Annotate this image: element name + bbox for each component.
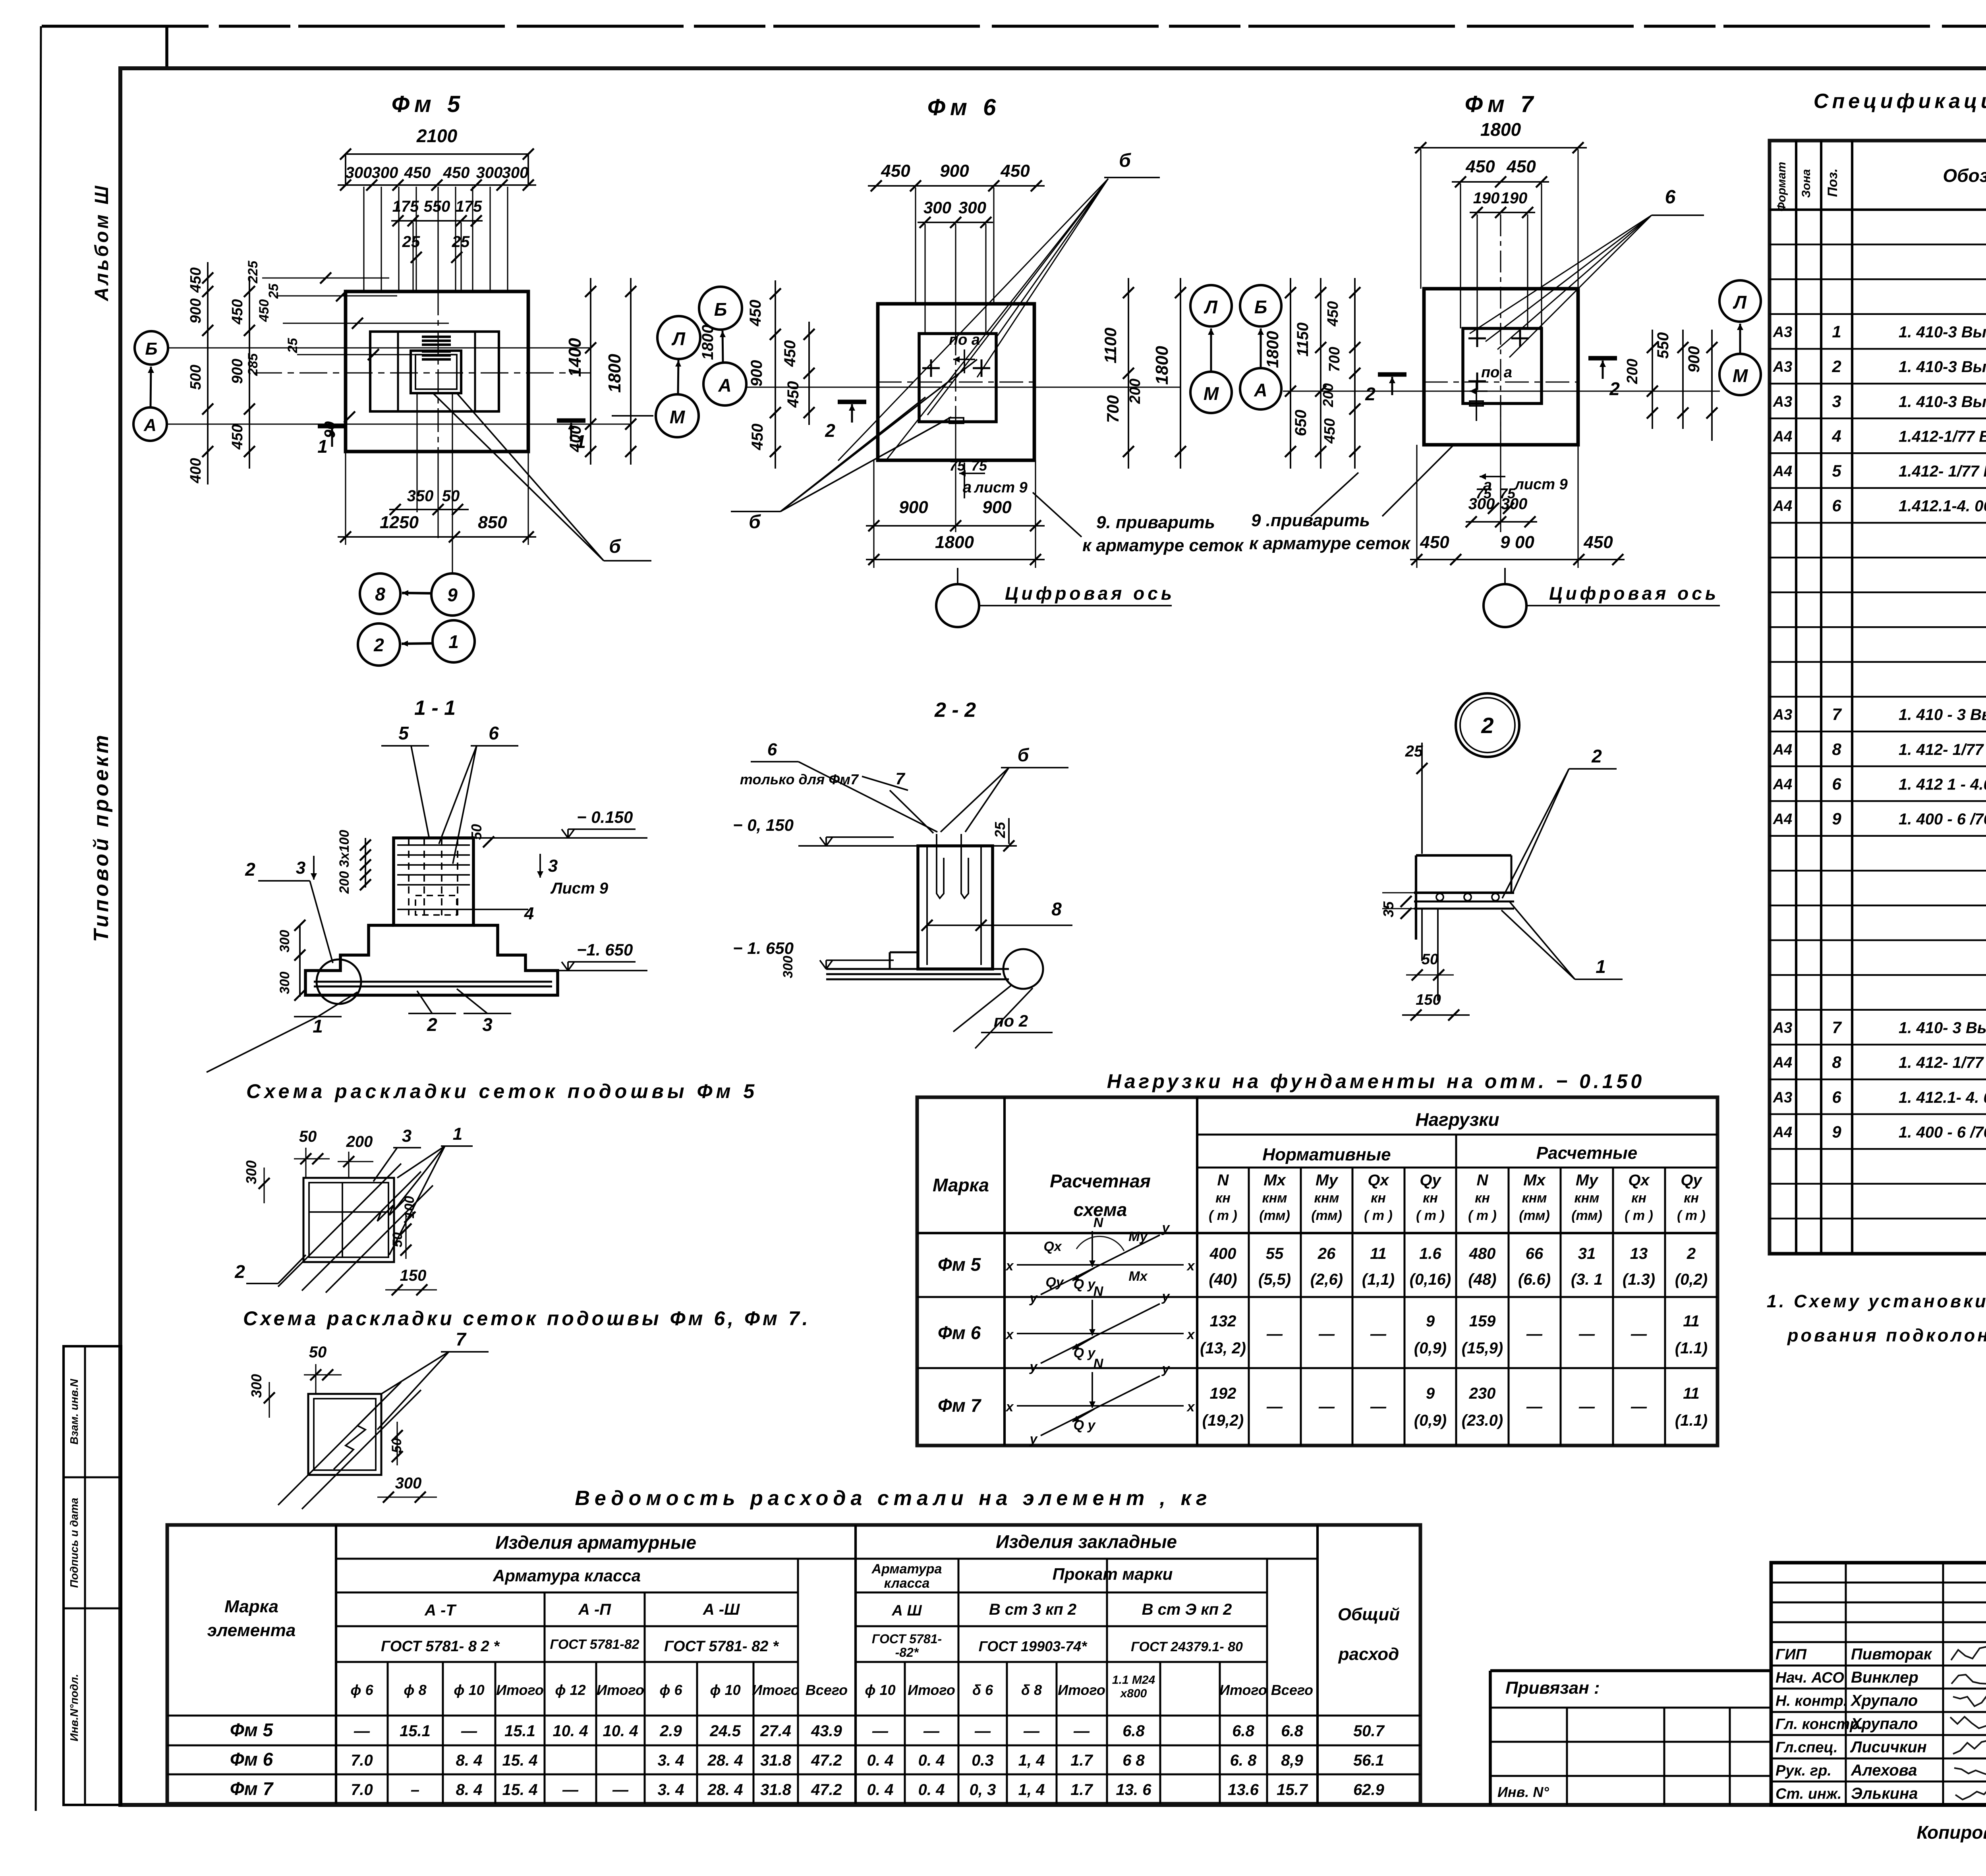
plan FM6 right axis circles [1190, 285, 1232, 326]
svg-text:Итого: Итого [1219, 1682, 1267, 1698]
svg-text:75: 75 [949, 457, 966, 474]
svg-text:ϕ 10: ϕ 10 [454, 1682, 484, 1698]
svg-text:300: 300 [958, 198, 986, 217]
svg-text:х: х [1005, 1327, 1014, 1342]
svg-text:190: 190 [1473, 189, 1500, 207]
svg-text:рования подколонника ФМ6, Ф: рования подколонника ФМ6, ФМ7, смотреть … [1787, 1325, 1986, 1345]
svg-text:300: 300 [502, 164, 529, 181]
svg-text:Пивторак: Пивторак [1851, 1646, 1932, 1663]
svg-text:450: 450 [784, 381, 802, 408]
svg-text:ГОСТ 19903-74*: ГОСТ 19903-74* [979, 1638, 1088, 1654]
svg-text:50.7: 50.7 [1353, 1722, 1385, 1740]
svg-text:—: — [1318, 1398, 1335, 1415]
svg-text:0. 4: 0. 4 [867, 1752, 894, 1769]
svg-text:—: — [1631, 1398, 1647, 1415]
plan FM5 bottom dims 350 50 [389, 509, 469, 510]
svg-text:Qх: Qх [1368, 1172, 1389, 1189]
svg-text:Всего: Всего [1271, 1682, 1313, 1698]
svg-text:− 1. 650: − 1. 650 [733, 939, 794, 957]
plan FM7 bottom dims 450 900 450 [1410, 559, 1625, 560]
svg-text:2: 2 [234, 1261, 245, 1282]
svg-text:Ведомость расхода стали на: Ведомость расхода стали на элемент , кг [575, 1487, 1211, 1510]
section 1-1 column [394, 838, 473, 925]
svg-text:Нагрузки: Нагрузки [1415, 1109, 1499, 1130]
svg-text:900: 900 [187, 298, 204, 323]
svg-text:Qх: Qх [1043, 1239, 1062, 1254]
svg-text:( т ): ( т ) [1209, 1208, 1237, 1223]
svg-text:А: А [143, 415, 156, 435]
section 2-2 level line top [798, 845, 918, 847]
section 1-1 dim 200 3x100 [365, 838, 366, 888]
plan FM5 column box [411, 351, 461, 393]
svg-text:1800: 1800 [1152, 346, 1172, 385]
plan FM5 axis line B [168, 347, 591, 348]
svg-text:А4: А4 [1773, 741, 1793, 758]
svg-text:− 0.150: − 0.150 [577, 808, 633, 826]
plan FM7 a list 9 [1480, 476, 1505, 477]
svg-text:5: 5 [1832, 461, 1841, 480]
svg-text:350: 350 [407, 487, 434, 505]
svg-text:Привязан :: Привязан : [1505, 1678, 1600, 1698]
svg-text:1: 1 [453, 1124, 462, 1144]
svg-text:В ст 3 кп 2: В ст 3 кп 2 [989, 1601, 1076, 1618]
plan FM6 a list 9 [959, 473, 985, 474]
svg-text:М: М [1204, 383, 1219, 404]
svg-text:Гл. констр.: Гл. констр. [1775, 1716, 1863, 1733]
svg-text:—: — [1266, 1398, 1283, 1415]
svg-text:1. Схему установки пространс: 1. Схему установки пространственного кар… [1767, 1291, 1986, 1311]
svg-text:900: 900 [748, 360, 765, 387]
plan FM6 anchor crosses [922, 367, 940, 369]
svg-text:2: 2 [427, 1014, 437, 1035]
svg-text:(5,5): (5,5) [1258, 1271, 1291, 1288]
svg-text:А4: А4 [1773, 498, 1793, 515]
svg-text:б: б [1119, 150, 1131, 171]
plan FM7 extension lines [1420, 149, 1421, 289]
svg-text:1.1 М24: 1.1 М24 [1112, 1673, 1155, 1687]
detail 2 concrete top [1416, 854, 1511, 857]
svg-text:6: 6 [1832, 1088, 1841, 1106]
svg-text:Qу: Qу [1681, 1172, 1702, 1189]
svg-text:200 3х100: 200 3х100 [337, 830, 352, 894]
svg-text:Прокат марки: Прокат марки [1053, 1565, 1173, 1583]
svg-text:кн: кн [1423, 1191, 1438, 1206]
svg-text:N: N [1093, 1356, 1104, 1371]
svg-text:(1,1): (1,1) [1362, 1271, 1395, 1288]
svg-text:50: 50 [299, 1128, 317, 1145]
svg-text:Итого: Итого [908, 1682, 955, 1698]
svg-text:Б: Б [145, 339, 157, 359]
plan FM5 mesh hatch marks [422, 336, 451, 338]
title block staff table [1771, 1563, 1986, 1805]
svg-text:2: 2 [1481, 713, 1493, 738]
svg-text:6.8: 6.8 [1122, 1722, 1145, 1740]
svg-text:кн: кн [1631, 1191, 1646, 1206]
svg-text:Общий: Общий [1338, 1605, 1400, 1624]
svg-text:—: — [1266, 1325, 1283, 1343]
section 2-2 level -0,150 [820, 837, 826, 846]
plan FM6 left dims [775, 280, 776, 469]
steel table grid [167, 1525, 1420, 1804]
svg-text:(19,2): (19,2) [1202, 1412, 1244, 1429]
svg-text:400: 400 [187, 458, 204, 483]
svg-text:(23.0): (23.0) [1462, 1412, 1503, 1429]
svg-text:у: у [1161, 1361, 1171, 1376]
section 2-2 column [918, 846, 993, 969]
svg-text:450: 450 [749, 424, 766, 451]
plan FM5 dim 175 550 175 [391, 220, 483, 222]
svg-text:6: 6 [1832, 774, 1841, 793]
svg-text:N: N [1217, 1172, 1229, 1189]
section 1-1 mark 3 right [539, 854, 541, 878]
svg-text:Л: Л [1733, 292, 1747, 313]
svg-text:ϕ 6: ϕ 6 [350, 1682, 373, 1698]
svg-text:25: 25 [266, 283, 281, 299]
svg-text:А4: А4 [1773, 428, 1793, 445]
svg-text:(0,9): (0,9) [1414, 1339, 1447, 1357]
svg-text:б: б [749, 511, 761, 533]
svg-text:N: N [1093, 1215, 1104, 1230]
loads table grid [917, 1097, 1717, 1446]
svg-text:6: 6 [1665, 187, 1676, 208]
svg-text:к арматуре сеток: к арматуре сеток [1082, 536, 1244, 555]
svg-text:− 0, 150: − 0, 150 [733, 816, 794, 834]
svg-text:1.412-1/77 Вып. 3: 1.412-1/77 Вып. 3 [1899, 428, 1986, 445]
svg-text:Расчетная: Расчетная [1050, 1171, 1151, 1191]
svg-text:(40): (40) [1209, 1271, 1237, 1288]
svg-text:(0,9): (0,9) [1414, 1412, 1447, 1429]
svg-text:25: 25 [992, 822, 1008, 838]
svg-text:100: 100 [402, 1196, 417, 1219]
svg-text:0. 4: 0. 4 [918, 1781, 945, 1799]
svg-text:15.7: 15.7 [1277, 1781, 1308, 1799]
svg-text:(тм): (тм) [1519, 1208, 1550, 1223]
svg-text:Фм 7: Фм 7 [230, 1778, 274, 1799]
svg-text:1800: 1800 [605, 354, 624, 393]
svg-text:кнм: кнм [1314, 1191, 1339, 1206]
svg-text:( т ): ( т ) [1416, 1208, 1445, 1223]
svg-text:10. 4: 10. 4 [603, 1722, 638, 1740]
svg-text:Фм 6: Фм 6 [927, 95, 1001, 120]
plan FM5 right dims [590, 278, 591, 465]
svg-text:47.2: 47.2 [811, 1781, 842, 1799]
svg-text:А -П: А -П [578, 1601, 611, 1618]
section 1-1 steps profile [305, 925, 558, 995]
svg-text:Фм 7: Фм 7 [938, 1395, 982, 1416]
svg-text:N: N [1477, 1172, 1489, 1189]
svg-text:1, 4: 1, 4 [1018, 1781, 1045, 1799]
svg-text:1800: 1800 [1263, 331, 1282, 368]
svg-text:850: 850 [478, 513, 507, 532]
svg-text:Спецификация фундаментов Ф: Спецификация фундаментов Фм 5, Фм 6 ; Фм… [1814, 90, 1986, 113]
svg-text:ϕ 12: ϕ 12 [555, 1682, 585, 1698]
svg-text:кн: кн [1684, 1191, 1699, 1206]
svg-text:( т ): ( т ) [1677, 1208, 1706, 1223]
svg-text:28. 4: 28. 4 [707, 1752, 743, 1769]
svg-text:А4: А4 [1773, 776, 1793, 793]
detail 2 below plate [1437, 909, 1439, 1001]
svg-text:Фм 5: Фм 5 [938, 1254, 981, 1275]
svg-text:1.412.1-4. 060: 1.412.1-4. 060 [1899, 498, 1986, 515]
svg-text:кнм: кнм [1522, 1191, 1547, 1206]
svg-text:у: у [1029, 1291, 1038, 1306]
svg-text:15.1: 15.1 [400, 1722, 431, 1740]
section 2-2 rebar hooks [937, 834, 944, 898]
section 1-1 base rebar [314, 981, 552, 983]
svg-text:М: М [1733, 365, 1748, 386]
svg-text:А3: А3 [1773, 324, 1793, 341]
svg-text:Подпись и дата: Подпись и дата [68, 1498, 80, 1588]
title block privyazan [1490, 1669, 1771, 1672]
svg-text:Формат: Формат [1775, 162, 1788, 211]
svg-text:А4: А4 [1773, 1054, 1793, 1071]
svg-text:Итого: Итого [597, 1682, 644, 1698]
svg-text:1: 1 [1832, 322, 1841, 341]
svg-text:Всего: Всего [806, 1682, 848, 1698]
svg-text:А Ш: А Ш [891, 1602, 922, 1619]
svg-text:А4: А4 [1773, 811, 1793, 828]
plan FM6 leaders b [780, 397, 925, 511]
svg-text:б: б [609, 536, 621, 557]
plan FM7 bottom dims 300 300 [1466, 521, 1537, 523]
svg-text:8: 8 [375, 584, 385, 604]
svg-text:300: 300 [1501, 495, 1528, 513]
sheet outer border left [36, 26, 41, 1811]
plan FM5 inner rectangle [370, 332, 499, 411]
plan FM7 leader b [1486, 215, 1652, 342]
svg-text:1100: 1100 [1101, 328, 1120, 363]
svg-text:Фм 7: Фм 7 [1465, 91, 1538, 117]
svg-text:Инв.N°подл.: Инв.N°подл. [68, 1674, 80, 1741]
svg-text:3: 3 [1832, 392, 1841, 411]
svg-text:1. 412- 1/77 Вып. 3: 1. 412- 1/77 Вып. 3 [1899, 1054, 1986, 1071]
svg-text:А -Ш: А -Ш [703, 1601, 740, 1618]
svg-text:25: 25 [402, 233, 420, 251]
svg-text:(тм): (тм) [1259, 1208, 1290, 1223]
svg-text:(1.3): (1.3) [1623, 1271, 1655, 1288]
svg-text:1. 410-3 Вып. 1: 1. 410-3 Вып. 1 [1899, 324, 1986, 341]
svg-text:—: — [1073, 1722, 1090, 1740]
svg-text:700: 700 [1103, 395, 1122, 423]
svg-text:1. 412- 1/77 Вып. 3: 1. 412- 1/77 Вып. 3 [1899, 741, 1986, 759]
svg-text:Q у: Q у [1074, 1345, 1096, 1361]
svg-text:—: — [1370, 1325, 1387, 1343]
svg-text:(15,9): (15,9) [1462, 1339, 1503, 1357]
section 2-2 base [890, 952, 918, 953]
svg-text:450: 450 [1465, 157, 1495, 176]
svg-text:Фм 5: Фм 5 [392, 91, 465, 117]
plan FM6 dim 450 900 450 [868, 185, 1045, 187]
svg-text:500: 500 [187, 365, 204, 390]
svg-text:450: 450 [781, 340, 799, 367]
svg-text:300: 300 [248, 1374, 265, 1398]
svg-text:450: 450 [1506, 157, 1536, 176]
plan FM6 section mark 2 left [838, 400, 866, 404]
svg-text:Q у: Q у [1074, 1277, 1096, 1292]
svg-text:Му: Му [1128, 1229, 1148, 1244]
spec table grid [1770, 141, 1986, 1254]
svg-text:150: 150 [1416, 992, 1441, 1008]
section 1-1 anchor bolts dashed [408, 839, 410, 915]
svg-text:А3: А3 [1773, 394, 1793, 410]
svg-text:Инв. N°: Инв. N° [1497, 1784, 1549, 1800]
svg-text:450: 450 [881, 161, 910, 181]
svg-text:ГИП: ГИП [1775, 1646, 1807, 1663]
svg-text:7.0: 7.0 [351, 1752, 373, 1769]
svg-text:(13, 2): (13, 2) [1200, 1339, 1246, 1357]
svg-text:7: 7 [895, 769, 905, 788]
svg-text:2.9: 2.9 [659, 1722, 682, 1740]
svg-text:—: — [974, 1722, 991, 1740]
svg-text:3: 3 [548, 856, 558, 876]
svg-text:Нагрузки на фундаменты на: Нагрузки на фундаменты на отм. − 0.150 [1107, 1070, 1645, 1092]
svg-text:1.6: 1.6 [1419, 1245, 1441, 1262]
svg-text:11: 11 [1370, 1245, 1387, 1262]
svg-text:лист 9: лист 9 [1514, 476, 1567, 493]
svg-text:лист 9: лист 9 [974, 479, 1027, 496]
svg-text:450: 450 [1583, 533, 1613, 552]
plan FM7 section mark 2 right [1588, 356, 1617, 360]
svg-text:50: 50 [442, 487, 460, 505]
svg-text:Фм 6: Фм 6 [230, 1749, 273, 1770]
svg-text:450: 450 [747, 300, 764, 327]
svg-text:150: 150 [400, 1267, 427, 1284]
detail circles 2 1 [358, 623, 400, 666]
svg-text:450: 450 [1420, 533, 1449, 552]
plan FM7 dim 450 450 [1452, 181, 1549, 183]
svg-text:50: 50 [390, 1232, 405, 1247]
svg-text:75: 75 [971, 457, 987, 474]
svg-text:х: х [1005, 1258, 1014, 1274]
svg-text:кн: кн [1371, 1191, 1386, 1206]
svg-text:1. 400 - 6 /76 Вып 1: 1. 400 - 6 /76 Вып 1 [1899, 1123, 1986, 1141]
svg-text:Л: Л [671, 328, 686, 349]
svg-text:1. 410 - 3 Вып. 3: 1. 410 - 3 Вып. 3 [1899, 706, 1986, 724]
svg-text:1. 412.1- 4. 060: 1. 412.1- 4. 060 [1899, 1089, 1986, 1106]
plan FM7 tsifrovaya os 2 [1484, 584, 1526, 627]
svg-text:9: 9 [1426, 1312, 1435, 1330]
plan FM5 leader b [433, 393, 604, 561]
svg-text:1.7: 1.7 [1070, 1752, 1093, 1769]
svg-text:200: 200 [1624, 359, 1641, 384]
svg-text:А4: А4 [1773, 1124, 1793, 1141]
svg-text:( т ): ( т ) [1468, 1208, 1497, 1223]
svg-text:8,9: 8,9 [1281, 1752, 1303, 1769]
svg-text:4: 4 [1831, 427, 1841, 445]
svg-text:ϕ 10: ϕ 10 [710, 1682, 740, 1698]
svg-text:элемента: элемента [207, 1621, 296, 1640]
svg-text:200: 200 [1320, 383, 1336, 407]
svg-text:2: 2 [1609, 378, 1620, 399]
svg-text:к арматуре сеток: к арматуре сеток [1249, 534, 1411, 553]
svg-text:—: — [461, 1722, 477, 1740]
svg-text:Б: Б [714, 299, 727, 320]
svg-text:Хрупало: Хрупало [1850, 1692, 1918, 1710]
section 1-1 detail circle [317, 959, 361, 1004]
svg-text:кн: кн [1215, 1191, 1231, 1206]
svg-text:300: 300 [243, 1160, 259, 1184]
svg-text:Лист 9: Лист 9 [550, 880, 609, 897]
svg-text:300: 300 [1468, 495, 1495, 513]
plan FM7 right axis circles [1719, 280, 1761, 322]
svg-text:9 .приварить: 9 .приварить [1251, 511, 1370, 530]
svg-text:Изделия арматурные: Изделия арматурные [495, 1532, 696, 1553]
svg-text:50: 50 [309, 1343, 327, 1361]
svg-text:Цифровая ось: Цифровая ось [1005, 583, 1175, 604]
svg-text:300: 300 [923, 198, 951, 217]
svg-text:класса: класса [884, 1576, 930, 1591]
svg-text:ГОСТ 5781-: ГОСТ 5781- [872, 1632, 942, 1646]
svg-text:7: 7 [1832, 1018, 1842, 1037]
svg-text:1.7: 1.7 [1070, 1781, 1093, 1799]
svg-text:175: 175 [392, 198, 419, 215]
svg-text:Винклер: Винклер [1851, 1669, 1918, 1686]
left margin stamp table [64, 1346, 121, 1805]
svg-text:1: 1 [1596, 956, 1606, 977]
svg-text:Мх: Мх [1263, 1172, 1286, 1189]
svg-text:х800: х800 [1120, 1687, 1147, 1700]
plan FM6 right dims [1128, 278, 1129, 469]
svg-text:А4: А4 [1773, 463, 1793, 480]
svg-text:15. 4: 15. 4 [502, 1752, 538, 1769]
svg-text:1800: 1800 [1480, 119, 1521, 140]
svg-text:300: 300 [395, 1475, 422, 1492]
svg-text:ГОСТ 5781- 8 2 *: ГОСТ 5781- 8 2 * [381, 1638, 500, 1655]
svg-text:—: — [923, 1722, 940, 1740]
svg-text:8: 8 [1832, 1053, 1841, 1071]
plan FM7 anchor crosses [1468, 338, 1486, 340]
svg-text:Му: Му [1576, 1172, 1599, 1189]
svg-text:Зона: Зона [1800, 169, 1813, 198]
svg-text:Н. контр.: Н. контр. [1775, 1693, 1848, 1710]
svg-text:по а: по а [1481, 364, 1512, 381]
svg-text:А: А [1254, 380, 1267, 400]
svg-text:Хрупало: Хрупало [1850, 1715, 1918, 1733]
svg-text:А3: А3 [1773, 1089, 1793, 1106]
svg-text:47.2: 47.2 [811, 1752, 842, 1769]
svg-text:9: 9 [447, 585, 458, 605]
section 1-1 dim 300 300 [299, 925, 301, 997]
svg-text:1: 1 [448, 631, 459, 652]
section 1-1 level -0.150 [473, 837, 647, 839]
svg-text:450: 450 [404, 164, 431, 181]
section 1-1 level -1.650 [558, 970, 647, 971]
svg-text:—: — [1023, 1722, 1040, 1740]
svg-text:7.0: 7.0 [351, 1781, 373, 1799]
plan FM7 leader from square to weld note [1382, 445, 1454, 516]
svg-text:Qх: Qх [1628, 1172, 1650, 1189]
svg-text:1: 1 [576, 431, 586, 452]
svg-text:–: – [411, 1781, 419, 1799]
svg-text:(тм): (тм) [1571, 1208, 1602, 1223]
svg-text:9: 9 [1426, 1385, 1435, 1402]
svg-text:Итого: Итого [1058, 1682, 1105, 1698]
svg-text:у: у [1029, 1359, 1038, 1374]
svg-text:Мх: Мх [1523, 1172, 1546, 1189]
plan FM5 bottom dims 1250 850 [338, 536, 536, 538]
svg-text:—: — [1526, 1325, 1543, 1343]
svg-text:2: 2 [1591, 746, 1602, 766]
svg-text:15.1: 15.1 [504, 1722, 535, 1740]
svg-text:В ст Э кп 2: В ст Э кп 2 [1142, 1601, 1232, 1618]
mesh scheme FM5 diagonals [278, 1164, 401, 1287]
svg-text:26: 26 [1318, 1245, 1336, 1262]
svg-text:6: 6 [489, 723, 499, 743]
svg-text:56.1: 56.1 [1353, 1752, 1384, 1769]
svg-text:(2,6): (2,6) [1310, 1271, 1343, 1288]
svg-text:550: 550 [1654, 332, 1672, 359]
svg-text:—: — [354, 1722, 370, 1740]
